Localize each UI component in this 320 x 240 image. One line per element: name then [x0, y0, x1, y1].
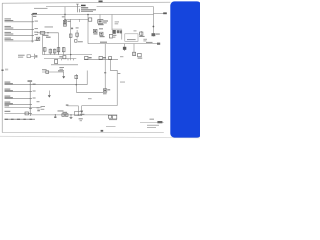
- vertical wire x112: [111, 15, 113, 31]
- label near node: [62, 16, 65, 17]
- capacitor C7: [133, 52, 136, 55]
- junction dot: [64, 19, 65, 20]
- cluster right on wire: [108, 115, 111, 118]
- vertical wire x70.7: [70, 19, 72, 60]
- cap row C4: [44, 47, 46, 55]
- net5 label: [5, 82, 13, 85]
- transistor Q1: [93, 29, 97, 32]
- junction dot: [70, 54, 71, 55]
- long wire y84.7: [30, 84, 87, 86]
- wire net4: [5, 40, 33, 42]
- C3 label: [139, 36, 144, 37]
- Q1 label: [93, 33, 97, 34]
- end symbol: [157, 43, 160, 45]
- resistor R7: [55, 60, 58, 64]
- bottom border tick: [101, 130, 104, 132]
- inductor L1: [40, 32, 45, 35]
- copyright text row: [5, 119, 36, 120]
- sheet border frame left: [1, 3, 3, 132]
- resistor R3: [76, 33, 79, 36]
- wire net10: [5, 112, 31, 114]
- long wire y114.9: [30, 114, 117, 116]
- note text: [143, 39, 147, 40]
- note: [120, 56, 123, 57]
- branch top blob: [66, 104, 69, 105]
- note: [88, 98, 92, 99]
- vertical wire x42.6: [42, 34, 44, 55]
- label: [42, 69, 47, 70]
- mid-left wire: [37, 32, 59, 34]
- capacitor C3: [140, 31, 142, 37]
- wire y105.6: [82, 105, 118, 107]
- net4 label: [5, 38, 14, 41]
- gnd stub: [48, 91, 50, 96]
- crystal Y1 below rail: [62, 114, 65, 117]
- gnd symbol: [63, 72, 65, 76]
- branch wire: [67, 106, 78, 115]
- sheet border frame bottom: [2, 132, 164, 134]
- off-page stub wire: [154, 12, 166, 14]
- rail2 wire: [84, 59, 118, 61]
- rail A wire: [46, 6, 154, 8]
- L route wire: [110, 60, 117, 106]
- capacitor C9: [49, 49, 51, 55]
- gnd rail ticks: [62, 59, 74, 61]
- net3 label: [5, 32, 14, 35]
- tick stub: [79, 19, 81, 22]
- vertical wire x134: [133, 44, 135, 56]
- wire net9: [5, 107, 42, 109]
- R5 marks: [120, 30, 122, 33]
- resistor R10 cluster: [75, 40, 77, 43]
- faint note text: [34, 8, 48, 9]
- net8 label: [5, 102, 13, 105]
- resistor R8: [46, 71, 49, 74]
- capacitor C8 below rail: [65, 114, 68, 117]
- resistor R2: [69, 34, 72, 37]
- wire net6: [5, 91, 31, 93]
- cluster E2: [99, 56, 102, 59]
- resistor R9: [25, 112, 29, 115]
- regulator U2: [98, 20, 103, 24]
- gnd label: [79, 118, 83, 119]
- rail A vertical wire: [153, 7, 155, 37]
- capacitor C2: [100, 32, 103, 35]
- junction dot: [76, 84, 77, 85]
- cluster F: [138, 53, 142, 56]
- vertical wire x58.5: [58, 33, 60, 55]
- left note rows: [41, 106, 46, 107]
- vertical wire x121.8: [121, 30, 123, 40]
- vertical wire x105.2: [104, 44, 106, 89]
- label: [58, 110, 64, 111]
- vertical wire x88: [87, 15, 89, 44]
- diode D3: [124, 44, 126, 51]
- faint left note: [5, 69, 8, 71]
- net6 label: [5, 89, 13, 92]
- resistor R4: [109, 34, 112, 38]
- C1 value label: [67, 21, 70, 22]
- gnd: [80, 111, 83, 113]
- junction dots: [55, 114, 56, 115]
- component box on branch: [88, 18, 91, 21]
- pin labels J2: [33, 84, 40, 112]
- wire net3: [5, 34, 33, 36]
- connector J1 label: [33, 13, 37, 14]
- wire net5: [5, 84, 31, 86]
- vertical wire x76.3: [75, 74, 77, 92]
- net7 label: [5, 96, 13, 99]
- blue side panel: [170, 1, 201, 137]
- transistor Q2: [103, 89, 107, 92]
- rail B wire: [34, 14, 154, 16]
- wire net2: [5, 28, 33, 30]
- title text block: [81, 4, 97, 12]
- sheet border frame top: [2, 2, 170, 3]
- title block line: [140, 122, 164, 124]
- page background: [0, 0, 200, 141]
- note text: [115, 21, 119, 22]
- label: [59, 56, 63, 57]
- gnd rail wire: [44, 58, 76, 60]
- branch wire: [65, 18, 88, 20]
- fold tick left border: [1, 70, 3, 71]
- vertical wire x77: [76, 30, 78, 39]
- top page tab mark: [99, 1, 103, 3]
- label above: [100, 42, 107, 43]
- box component U4: [75, 111, 82, 115]
- diode D2 on rail vertical: [153, 26, 155, 28]
- connector J2 body: [29, 82, 32, 116]
- decoupling rail wire: [43, 54, 93, 56]
- lower wire: [51, 64, 78, 66]
- off-page arrow: [163, 12, 167, 14]
- capacitor C10: [54, 49, 56, 55]
- connector J1 body: [31, 13, 34, 42]
- U3 text: [127, 39, 136, 40]
- vertical wire x87.2: [86, 71, 88, 85]
- pin labels J1: [35, 21, 38, 41]
- IC U3 box: [125, 34, 138, 42]
- connector J2 label: [28, 80, 33, 81]
- junction dot: [87, 14, 89, 16]
- mid connector J3: [18, 54, 37, 59]
- U2 label: [98, 24, 104, 25]
- capacitor C1: [63, 24, 66, 26]
- resistor R11: [75, 75, 78, 78]
- label rows: [59, 67, 64, 68]
- cap row C5: [58, 47, 60, 55]
- vertical wire x100: [99, 15, 101, 20]
- C2 label: [100, 36, 105, 37]
- component K1: [37, 37, 40, 40]
- faint note: [120, 82, 125, 83]
- upper small cluster near x42-52: [42, 71, 64, 73]
- test point TP1: [76, 4, 80, 12]
- wire to Q2: [76, 91, 103, 93]
- tick: [118, 73, 121, 74]
- wire net7: [5, 98, 31, 100]
- label: [80, 114, 85, 115]
- wire y45.5: [88, 43, 158, 45]
- cluster labels: [43, 35, 49, 36]
- resistor R6: [63, 56, 66, 59]
- diode D1: [63, 20, 66, 23]
- title block text: [150, 119, 155, 120]
- net2 label: [5, 26, 14, 29]
- cluster E1: [85, 56, 88, 59]
- cap row C6: [63, 47, 65, 55]
- junction dot: [64, 14, 65, 15]
- wire net8: [5, 104, 31, 106]
- vertical x81.7: [81, 106, 83, 111]
- net9 label: [5, 105, 10, 106]
- vertical wire at x65: [64, 7, 66, 27]
- top tick: [104, 72, 106, 73]
- page bottom edge: [0, 136, 200, 138]
- cluster blobs x112-120: [112, 30, 115, 34]
- wire net1: [5, 21, 33, 23]
- net1 label: [5, 18, 14, 21]
- cluster E3: [109, 57, 112, 60]
- net10 label: [5, 111, 11, 112]
- drop stubs: [54, 115, 56, 117]
